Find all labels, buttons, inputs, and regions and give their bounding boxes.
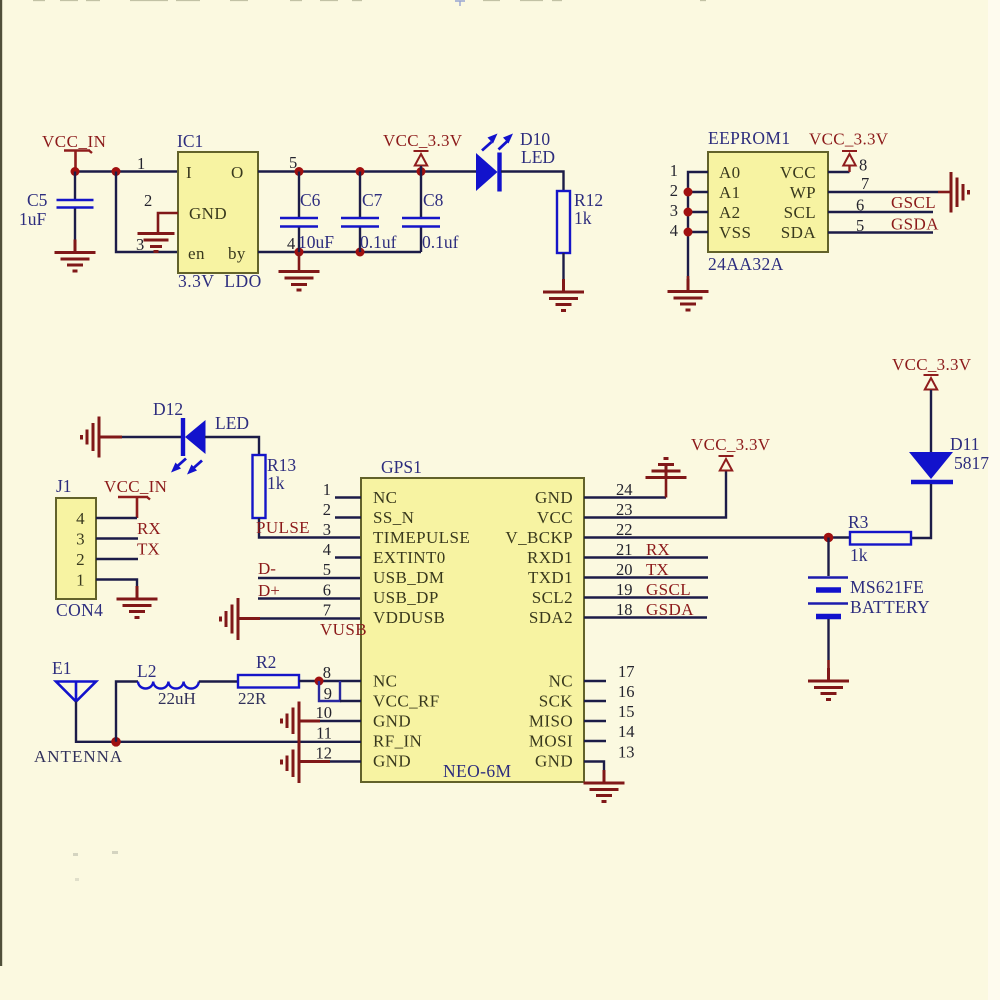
wire IC1 by rail (bottom) bbox=[258, 251, 421, 253]
svg-text:VCC_3.3V: VCC_3.3V bbox=[691, 435, 771, 454]
wire IC1 pin2 GND bbox=[158, 213, 178, 233]
svg-text:20: 20 bbox=[616, 560, 633, 579]
svg-text:SCL2: SCL2 bbox=[532, 588, 573, 607]
wire GPS1 pin13 GND bbox=[584, 762, 604, 771]
wire EEPROM pin7 WP to ground bbox=[828, 191, 951, 193]
svg-text:O: O bbox=[231, 163, 244, 182]
svg-text:1k: 1k bbox=[574, 208, 592, 228]
power symbol VCC_3.3V (LDO output) bbox=[383, 131, 463, 172]
inductor L2 bbox=[138, 682, 199, 689]
node junction C8/VCC top bbox=[417, 167, 426, 176]
svg-text:SDA2: SDA2 bbox=[529, 608, 573, 627]
ground EEPROM left bus bbox=[668, 276, 709, 310]
wire J1 pin1 to ground bbox=[96, 580, 137, 592]
svg-text:12: 12 bbox=[316, 744, 333, 763]
svg-text:VCC_IN: VCC_IN bbox=[42, 132, 106, 151]
svg-text:C7: C7 bbox=[362, 190, 383, 210]
svg-text:19: 19 bbox=[616, 580, 633, 599]
IC regulator IC1 box bbox=[178, 152, 258, 273]
GPS1 pin 2 stub bbox=[335, 516, 361, 518]
ground IC1 pin2 bbox=[138, 234, 175, 252]
svg-text:24: 24 bbox=[616, 480, 633, 499]
ground below C5 bbox=[55, 240, 96, 272]
antenna E1 bbox=[56, 682, 96, 702]
wire ground to D12 cathode bbox=[122, 436, 182, 438]
wire GPS1 pin21 RXD1 bbox=[584, 556, 708, 558]
svg-text:GND: GND bbox=[373, 752, 411, 771]
svg-text:18: 18 bbox=[616, 600, 633, 619]
svg-text:RX: RX bbox=[137, 519, 161, 538]
svg-text:NC: NC bbox=[373, 488, 397, 507]
wire pin9 loop (VCC_RF tie) bbox=[319, 681, 361, 701]
svg-text:1k: 1k bbox=[850, 545, 868, 565]
svg-text:USB_DP: USB_DP bbox=[373, 588, 439, 607]
ground battery bbox=[808, 668, 849, 700]
svg-text:D10: D10 bbox=[520, 129, 550, 149]
svg-text:4: 4 bbox=[323, 540, 331, 559]
svg-text:TX: TX bbox=[646, 560, 669, 579]
wire R2 to GPS1 pin8 bbox=[299, 680, 361, 682]
svg-text:NC: NC bbox=[373, 672, 397, 691]
resistor R2 bbox=[238, 675, 299, 688]
svg-text:GND: GND bbox=[535, 488, 573, 507]
svg-text:5: 5 bbox=[323, 560, 331, 579]
svg-text:21: 21 bbox=[616, 540, 633, 559]
svg-text:10uF: 10uF bbox=[298, 232, 334, 252]
wire D12 anode to R13 bbox=[205, 437, 259, 455]
svg-text:BATTERY: BATTERY bbox=[850, 597, 930, 617]
wire J1 pin3 RX bbox=[96, 537, 138, 539]
svg-text:TIMEPULSE: TIMEPULSE bbox=[373, 528, 470, 547]
svg-text:1uF: 1uF bbox=[19, 209, 47, 229]
power symbol VCC_3.3V (GPS1 pin23) bbox=[691, 435, 771, 471]
svg-text:3: 3 bbox=[670, 201, 678, 220]
power symbol VCC_3.3V (D11) bbox=[892, 355, 972, 390]
power symbol VCC_IN (J1 pin4) bbox=[104, 477, 167, 518]
svg-text:0.1uf: 0.1uf bbox=[422, 232, 459, 252]
svg-text:D-: D- bbox=[258, 559, 276, 578]
node junction EEPROM pin2 bbox=[684, 188, 693, 197]
diode D11 bbox=[909, 452, 953, 482]
GPS1 pin 14 stub bbox=[584, 740, 606, 742]
node junction pin8/pin9 bbox=[315, 677, 324, 686]
svg-text:7: 7 bbox=[861, 174, 869, 193]
ground GPS1 pin12 (rotated) bbox=[282, 742, 331, 784]
node junction EEPROM pin4 bbox=[684, 228, 693, 237]
svg-text:I: I bbox=[186, 163, 192, 182]
svg-text:MOSI: MOSI bbox=[529, 732, 573, 751]
wire GPS1 pin24 GND bbox=[584, 496, 666, 498]
node junction VCC_IN / C5 bbox=[71, 167, 80, 176]
LED D12 bbox=[171, 418, 206, 475]
svg-text:VCC: VCC bbox=[537, 508, 573, 527]
svg-text:VCC_3.3V: VCC_3.3V bbox=[809, 130, 889, 149]
svg-text:VCC_IN: VCC_IN bbox=[104, 477, 167, 496]
ground D12 (rotated) bbox=[82, 417, 123, 458]
resistor R13 bbox=[253, 455, 266, 518]
svg-text:CON4: CON4 bbox=[56, 600, 103, 620]
svg-text:4: 4 bbox=[287, 234, 295, 253]
svg-text:MS621FE: MS621FE bbox=[850, 577, 924, 597]
svg-text:D+: D+ bbox=[258, 581, 280, 600]
page right light strip bbox=[988, 0, 1000, 1000]
faint speck artifacts bbox=[73, 853, 78, 856]
svg-text:A1: A1 bbox=[719, 183, 741, 202]
svg-text:VSS: VSS bbox=[719, 223, 751, 242]
wire D10 anode to R12 bbox=[501, 172, 564, 192]
capacitor C8 bbox=[402, 172, 440, 253]
wire L2 to R2 bbox=[199, 680, 238, 682]
svg-text:4: 4 bbox=[76, 509, 85, 528]
wire EEPROM pin6 SCL bbox=[828, 211, 933, 213]
svg-text:6: 6 bbox=[323, 581, 331, 600]
IC GPS1 box bbox=[361, 478, 584, 782]
GPS1 pin 15 stub bbox=[584, 720, 606, 722]
svg-text:LED: LED bbox=[215, 413, 249, 433]
wire junction to battery bbox=[827, 538, 829, 577]
wire R12 to ground bbox=[562, 253, 564, 279]
svg-text:2: 2 bbox=[76, 550, 85, 569]
svg-text:VUSB: VUSB bbox=[320, 620, 367, 639]
capacitor C5 bbox=[57, 172, 94, 253]
svg-text:3: 3 bbox=[323, 520, 331, 539]
svg-text:2: 2 bbox=[670, 181, 678, 200]
resistor R12 bbox=[557, 191, 570, 253]
ground GPS1 pin24 (inverted) bbox=[646, 459, 687, 479]
svg-text:V_BCKP: V_BCKP bbox=[505, 528, 573, 547]
top edge blue artifact bbox=[455, 1, 465, 6]
svg-text:C8: C8 bbox=[423, 190, 444, 210]
svg-text:16: 16 bbox=[618, 682, 635, 701]
svg-text:NC: NC bbox=[549, 672, 573, 691]
wire VCC to D11 bbox=[930, 390, 932, 452]
svg-text:SCK: SCK bbox=[539, 692, 574, 711]
wire J1 pin4 bbox=[96, 517, 137, 519]
svg-text:E1: E1 bbox=[52, 658, 71, 678]
GPS1 pin 4 stub bbox=[335, 556, 361, 558]
node junction C7 bottom bbox=[356, 248, 365, 257]
svg-text:GND: GND bbox=[373, 712, 411, 731]
node junction C7 top bbox=[356, 167, 365, 176]
svg-text:IC1: IC1 bbox=[177, 131, 203, 151]
wire J1 pin2 TX bbox=[96, 558, 138, 560]
node junction EEPROM pin3 bbox=[684, 208, 693, 217]
svg-text:J1: J1 bbox=[56, 476, 72, 496]
connector J1 box bbox=[56, 498, 96, 599]
ground below R12 bbox=[543, 279, 584, 311]
svg-text:24AA32A: 24AA32A bbox=[708, 254, 784, 274]
wire battery to ground bbox=[827, 619, 829, 680]
wire EEPROM pin5 SDA bbox=[828, 231, 933, 233]
node junction en branch bbox=[112, 167, 121, 176]
svg-text:MISO: MISO bbox=[529, 712, 573, 731]
svg-text:USB_DM: USB_DM bbox=[373, 568, 444, 587]
svg-text:14: 14 bbox=[618, 722, 635, 741]
wire GPS1 pin23 VCC bbox=[584, 471, 726, 518]
svg-text:1: 1 bbox=[323, 480, 331, 499]
capacitor C6 bbox=[280, 172, 318, 253]
svg-text:C5: C5 bbox=[27, 190, 48, 210]
svg-text:10: 10 bbox=[316, 703, 333, 722]
wire R13 to GPS1 pin3 TIMEPULSE bbox=[259, 518, 361, 538]
wire GPS1 pin10 GND bbox=[320, 720, 361, 722]
node junction C6 top bbox=[295, 167, 304, 176]
wire EEPROM left bus bbox=[688, 172, 708, 278]
svg-text:2: 2 bbox=[144, 191, 152, 210]
wire IC1 output rail bbox=[258, 170, 476, 172]
ground below C6 rail bbox=[279, 252, 320, 290]
battery MS621FE bbox=[808, 578, 848, 617]
svg-text:D12: D12 bbox=[153, 399, 183, 419]
wire GPS1 pin12 GND bbox=[330, 760, 361, 762]
svg-text:GSCL: GSCL bbox=[891, 193, 936, 212]
svg-text:VCC_3.3V: VCC_3.3V bbox=[383, 131, 463, 150]
resistor R3 bbox=[850, 532, 911, 545]
svg-text:TX: TX bbox=[137, 540, 160, 559]
svg-text:22: 22 bbox=[616, 520, 633, 539]
svg-text:3: 3 bbox=[136, 235, 144, 254]
svg-text:EXTINT0: EXTINT0 bbox=[373, 548, 446, 567]
svg-text:TXD1: TXD1 bbox=[528, 568, 573, 587]
svg-text:VCC_3.3V: VCC_3.3V bbox=[892, 355, 972, 374]
wire GPS1 pin5 USB_DM bbox=[258, 577, 361, 579]
svg-text:RF_IN: RF_IN bbox=[373, 732, 422, 751]
svg-text:11: 11 bbox=[316, 724, 332, 743]
svg-text:en: en bbox=[188, 244, 205, 263]
wire D11 to R3 bbox=[911, 484, 931, 538]
svg-text:RX: RX bbox=[646, 540, 670, 559]
capacitor C7 bbox=[341, 172, 379, 253]
svg-text:2: 2 bbox=[323, 500, 331, 519]
svg-text:R12: R12 bbox=[574, 190, 603, 210]
LED D10 bbox=[476, 134, 513, 192]
svg-text:GPS1: GPS1 bbox=[381, 457, 422, 477]
svg-text:1: 1 bbox=[670, 161, 678, 180]
wire GPS1 pin6 USB_DP bbox=[258, 597, 361, 599]
svg-text:by: by bbox=[228, 244, 246, 263]
svg-text:R3: R3 bbox=[848, 512, 869, 532]
svg-text:WP: WP bbox=[790, 183, 816, 202]
ground VUSB (rotated) bbox=[221, 598, 261, 640]
svg-text:17: 17 bbox=[618, 662, 635, 681]
svg-text:C6: C6 bbox=[300, 190, 321, 210]
ground EEPROM pin7 (rotated) bbox=[951, 172, 969, 213]
svg-text:EEPROM1: EEPROM1 bbox=[708, 128, 791, 148]
power symbol VCC_IN bbox=[42, 132, 106, 172]
wire GPS1 pin22 V_BCKP bbox=[584, 536, 850, 538]
power symbol VCC_3.3V (EEPROM pin8) bbox=[809, 130, 889, 173]
IC EEPROM1 box bbox=[708, 152, 828, 252]
wire GPS1 pin20 TXD1 bbox=[584, 576, 708, 578]
wire VCC_IN to IC1 pin1 bbox=[75, 170, 178, 172]
svg-text:15: 15 bbox=[618, 702, 635, 721]
svg-text:VDDUSB: VDDUSB bbox=[373, 608, 445, 627]
svg-text:5817: 5817 bbox=[954, 453, 989, 473]
svg-text:R13: R13 bbox=[267, 455, 296, 475]
svg-text:5: 5 bbox=[856, 216, 864, 235]
svg-text:VCC: VCC bbox=[780, 163, 816, 182]
GPS1 pin 1 stub bbox=[335, 496, 361, 498]
GPS1 pin 16 stub bbox=[584, 700, 606, 702]
wire antenna to RF_IN bbox=[76, 702, 361, 742]
svg-text:7: 7 bbox=[323, 601, 331, 620]
page left border bbox=[0, 0, 2, 966]
svg-text:A2: A2 bbox=[719, 203, 741, 222]
svg-text:LED: LED bbox=[521, 147, 555, 167]
svg-text:23: 23 bbox=[616, 500, 633, 519]
svg-text:4: 4 bbox=[670, 221, 678, 240]
svg-text:R2: R2 bbox=[256, 652, 276, 672]
svg-text:L2: L2 bbox=[137, 661, 156, 681]
svg-text:A0: A0 bbox=[719, 163, 741, 182]
svg-text:1: 1 bbox=[76, 571, 85, 590]
svg-text:GSCL: GSCL bbox=[646, 580, 691, 599]
svg-text:RXD1: RXD1 bbox=[527, 548, 573, 567]
wire GPS1 pin18 SDA2 bbox=[584, 616, 707, 618]
wire en branch (junction down and right to IC1 en) bbox=[116, 172, 178, 253]
svg-text:ANTENNA: ANTENNA bbox=[34, 747, 123, 766]
node junction battery / R3 bbox=[824, 533, 834, 543]
top edge clipped text artifacts bbox=[33, 0, 706, 2]
svg-text:GSDA: GSDA bbox=[891, 215, 939, 234]
svg-text:8: 8 bbox=[323, 663, 331, 682]
svg-text:0.1uf: 0.1uf bbox=[360, 232, 397, 252]
svg-text:SS_N: SS_N bbox=[373, 508, 414, 527]
svg-text:GND: GND bbox=[189, 204, 227, 223]
svg-text:1k: 1k bbox=[267, 473, 285, 493]
svg-text:VCC_RF: VCC_RF bbox=[373, 692, 440, 711]
wire GPS1 pin19 SCL2 bbox=[584, 596, 708, 598]
svg-text:SDA: SDA bbox=[781, 223, 817, 242]
wire L2 branch vertical bbox=[116, 682, 138, 742]
svg-text:GSDA: GSDA bbox=[646, 600, 694, 619]
node junction C6 bottom bbox=[295, 248, 304, 257]
ground J1 pin1 bbox=[117, 586, 158, 618]
ground GPS1 pin13 bbox=[584, 770, 625, 802]
wire GPS1 pin7 VDDUSB bbox=[260, 617, 361, 619]
GPS1 pin 17 stub bbox=[584, 680, 606, 682]
svg-text:22R: 22R bbox=[238, 689, 267, 708]
svg-text:3: 3 bbox=[76, 530, 85, 549]
svg-text:D11: D11 bbox=[950, 434, 980, 454]
node junction antenna / L2 bbox=[111, 737, 121, 747]
svg-text:6: 6 bbox=[856, 196, 864, 215]
svg-text:1: 1 bbox=[137, 154, 145, 173]
svg-text:3.3V LDO: 3.3V LDO bbox=[178, 271, 262, 291]
ground GPS1 pin10 (rotated) bbox=[282, 702, 321, 742]
svg-text:SCL: SCL bbox=[784, 203, 816, 222]
svg-text:PULSE: PULSE bbox=[256, 518, 310, 537]
svg-text:13: 13 bbox=[618, 743, 635, 762]
svg-text:GND: GND bbox=[535, 752, 573, 771]
svg-text:NEO-6M: NEO-6M bbox=[443, 761, 512, 781]
svg-text:22uH: 22uH bbox=[158, 689, 196, 708]
svg-text:8: 8 bbox=[859, 156, 867, 175]
